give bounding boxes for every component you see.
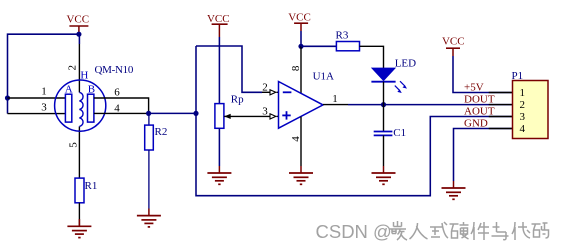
wire: sensor pin 2 lead (from VCC junction down to heater top) (78, 34, 80, 44)
power VCC (left, above sensor) (66, 13, 89, 34)
wire: net-A top run to inverting input (196, 46, 262, 92)
wire: sensor pin 5 lead (heater bottom down to R1) (78, 126, 80, 178)
硬 (450, 222, 469, 239)
node: junction at R2 top (146, 111, 151, 116)
ground (below C1) (372, 166, 396, 184)
wire: sensor node to net-A rail (149, 112, 196, 114)
svg-text:H: H (80, 69, 88, 81)
op-amp U1A (279, 82, 324, 129)
svg-text:A: A (65, 84, 73, 96)
件 (471, 222, 489, 240)
svg-text:B: B (88, 84, 95, 96)
svg-text:1: 1 (41, 86, 47, 98)
嵌 (389, 221, 407, 240)
wire: sensor pin 6 lead (94, 98, 149, 113)
入 (410, 223, 428, 239)
svg-text:4: 4 (520, 123, 526, 135)
svg-text:VCC: VCC (442, 36, 465, 48)
ground (below P1 GND) (442, 181, 466, 199)
wire: P1 pin 4 (GND) to ground (454, 129, 513, 182)
svg-text:+5V: +5V (464, 82, 484, 94)
svg-text:6: 6 (114, 87, 120, 99)
node: junction output/LED/C1 (381, 102, 386, 107)
wire: VCC to P1 pin 1 (+5V) (453, 56, 513, 93)
power VCC (above P1) (442, 36, 465, 57)
watermark chinese glyphs (389, 221, 549, 240)
式 (430, 222, 448, 238)
gas sensor QM-N10 body (55, 80, 106, 131)
wire: sensor pin 4 lead (94, 112, 149, 114)
svg-text:GND: GND (464, 118, 488, 130)
svg-text:1: 1 (520, 87, 526, 99)
与 (492, 222, 509, 240)
wire: op-amp pin 3 lead with input arrow (270, 114, 279, 119)
LED (371, 68, 407, 105)
resistor R1 (75, 178, 97, 226)
svg-text:R1: R1 (85, 180, 98, 192)
wire: P1 pin stubs (489, 93, 513, 129)
wire: sensor pin 1 lead (8, 97, 66, 99)
svg-text:3: 3 (262, 106, 268, 118)
resistor R2 (145, 113, 168, 208)
wire: VCC down to Rp top (crosses net-A, no junction) (218, 37, 220, 104)
svg-text:QM-N10: QM-N10 (95, 64, 134, 76)
resistor R3 (301, 30, 384, 68)
power VCC (above Rp) (207, 13, 230, 37)
svg-text:8: 8 (290, 65, 302, 71)
ground (below op-amp pin 4) (289, 166, 313, 184)
wire: op-amp pin 2 lead with input arrow (262, 90, 279, 95)
node: junction on net-A rail (193, 111, 198, 116)
wire: output net to DOUT (348, 104, 513, 106)
svg-text:Rp: Rp (231, 94, 244, 106)
svg-text:DOUT: DOUT (464, 94, 495, 106)
wire: VCC to pin 8 and R3 junction (300, 31, 302, 46)
svg-text:CSDN @: CSDN @ (316, 221, 392, 242)
node: junction at VCC stub (76, 32, 81, 37)
svg-text:R3: R3 (336, 30, 349, 42)
svg-text:1: 1 (332, 93, 338, 105)
wire: op-amp output pin 1 (323, 104, 348, 106)
ground (below R2) (137, 209, 161, 227)
ground (below Rp) (207, 166, 231, 184)
svg-text:R2: R2 (155, 126, 168, 138)
potentiometer Rp (215, 94, 270, 167)
svg-text:C1: C1 (393, 127, 406, 139)
node: junction VCC/R3/pin8 (298, 44, 303, 49)
svg-text:4: 4 (114, 102, 120, 114)
wire: net-A rail (sensor output) down and bottom rail to AOUT (196, 46, 513, 196)
svg-text:AOUT: AOUT (464, 106, 495, 118)
码 (532, 223, 549, 238)
connector P1 (512, 70, 549, 139)
wire: op-amp pin 4 lead (300, 117, 302, 166)
svg-text:LED: LED (395, 57, 416, 69)
svg-text:U1A: U1A (313, 70, 334, 82)
wire: sensor pin 3 lead (8, 113, 66, 115)
svg-text:4: 4 (290, 136, 302, 142)
wire: VCC junction to left rail and down to sensor pins 1/3 (8, 34, 79, 113)
svg-text:VCC: VCC (288, 12, 311, 24)
svg-text:3: 3 (520, 111, 526, 123)
svg-text:2: 2 (262, 82, 268, 94)
svg-text:VCC: VCC (207, 13, 230, 25)
ground (below R1) (67, 219, 91, 238)
svg-text:3: 3 (41, 101, 47, 113)
svg-text:2: 2 (67, 65, 79, 71)
wire: op-amp pin 8 lead (300, 46, 302, 93)
power VCC (above op-amp) (288, 12, 311, 32)
svg-text:P1: P1 (512, 70, 524, 82)
capacitor C1 (374, 105, 406, 166)
代 (512, 222, 530, 240)
svg-text:VCC: VCC (66, 13, 89, 25)
svg-text:5: 5 (67, 142, 79, 148)
node: junction on left rail at pin 1 row (5, 95, 10, 100)
svg-text:2: 2 (520, 99, 526, 111)
